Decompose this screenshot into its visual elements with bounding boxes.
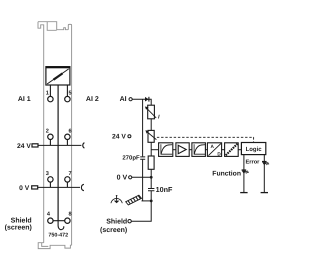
svg-text:24 V: 24 V [112, 134, 126, 141]
internal center wire [57, 85, 59, 221]
diode D1 triangle [145, 97, 149, 102]
svg-text:7: 7 [69, 171, 72, 177]
module foot profile [38, 243, 71, 249]
svg-text:0 V: 0 V [19, 185, 30, 192]
function display box U-LED [46, 67, 70, 85]
function LED [242, 169, 247, 171]
terminal 1 stem [49, 85, 51, 96]
internal bus wire upper [142, 99, 144, 156]
AI input wire [132, 99, 151, 105]
varistor arrow [147, 132, 156, 140]
24V row wire [38, 144, 82, 146]
terminal 7 stem [66, 182, 68, 187]
24V terminal circle right [128, 135, 131, 138]
module foot inner contour [42, 243, 49, 247]
24V plug connector [32, 144, 38, 147]
wire junction to filter chain [151, 149, 158, 151]
internal bus wire lower [142, 160, 144, 201]
terminal 3 circle [48, 177, 53, 182]
svg-text:A: A [211, 144, 215, 149]
varistor box 2 [148, 130, 154, 142]
terminal 8 circle [65, 218, 70, 223]
svg-text:4: 4 [47, 212, 51, 218]
wire box1 to box2 [150, 119, 152, 131]
svg-text:750-472: 750-472 [48, 232, 68, 238]
wire F2-AD [205, 149, 207, 151]
wire 10nF to shield node [150, 191, 152, 201]
svg-text:0 V: 0 V [117, 175, 128, 182]
diode D1 bar [148, 97, 150, 102]
0V terminal circle right [129, 176, 132, 179]
junction node shield [150, 200, 153, 203]
logic block U1 [241, 143, 265, 155]
wire F1-amp [173, 149, 176, 151]
amplifier block [176, 143, 189, 157]
0V wire [132, 176, 151, 178]
earth symbol [111, 198, 122, 203]
error LED line [263, 155, 265, 193]
svg-text:(screen): (screen) [100, 226, 127, 234]
current limiter box I [148, 105, 155, 119]
svg-text:Shield: Shield [11, 216, 32, 224]
terminal 6 circle [65, 134, 70, 139]
junction node 0V [150, 176, 153, 179]
shield node wire [142, 200, 152, 202]
current limiter arrow [147, 108, 157, 118]
svg-text:Logic: Logic [246, 146, 263, 153]
terminal 1 circle [48, 96, 53, 101]
terminal 5 stem [66, 85, 68, 96]
wire resistor to 0V node [150, 169, 152, 188]
display box thick top bar [46, 66, 71, 68]
svg-text:AI: AI [120, 96, 127, 103]
shield loop hook [58, 221, 64, 230]
terminal 2 circle [48, 134, 53, 139]
wire box2 to junction [150, 142, 152, 156]
svg-text:Function: Function [212, 170, 241, 177]
function LED line [243, 155, 245, 193]
capacitor 10nF plates [148, 189, 154, 191]
wire terminal 4 to 8 [53, 220, 65, 222]
function LED rail tick [240, 192, 247, 194]
svg-text:Shield: Shield [106, 218, 127, 226]
svg-text:(screen): (screen) [5, 224, 32, 232]
terminal 5 circle [65, 96, 70, 101]
module latch slot [47, 22, 57, 31]
0V row wire [38, 186, 80, 188]
resistor R1 [148, 156, 154, 169]
svg-text:1: 1 [46, 91, 49, 97]
module outline top latch bar and right edge [38, 22, 72, 246]
capacitor 270pF plates [140, 157, 145, 159]
svg-text:I: I [158, 115, 160, 121]
svg-text:D: D [217, 151, 221, 156]
dashed control line [157, 137, 254, 142]
svg-text:6: 6 [69, 129, 72, 135]
A/D converter block [207, 143, 221, 157]
24V cage clamp [83, 143, 85, 149]
svg-text:8: 8 [69, 212, 72, 218]
module outline left edge and DIN latch hook [38, 22, 44, 243]
svg-text:Error: Error [245, 160, 260, 166]
AI terminal circle [129, 98, 132, 101]
shield wire right [131, 201, 151, 221]
svg-text:3: 3 [46, 171, 49, 177]
wire amp-F2 [189, 149, 192, 151]
0V plug connector [32, 186, 38, 189]
error LED [262, 161, 267, 163]
svg-text:AI 1: AI 1 [18, 96, 31, 103]
wire iso-logic [238, 149, 241, 151]
terminal 4 circle [48, 218, 53, 223]
error LED rail tick [261, 192, 268, 194]
svg-text:2: 2 [46, 129, 49, 135]
svg-text:270pF: 270pF [122, 155, 140, 162]
filter block F2 [192, 143, 206, 157]
shield terminal circle right [128, 220, 131, 223]
display box diagonal stripe [47, 69, 69, 84]
svg-text:AI 2: AI 2 [86, 96, 99, 103]
0V cage clamp [81, 184, 83, 190]
terminal 6 stem [66, 140, 68, 146]
wire AD-iso [222, 149, 225, 151]
terminal 2 stem [49, 140, 51, 146]
svg-text:24 V: 24 V [17, 143, 31, 150]
terminal 3 stem [49, 182, 51, 187]
svg-text:10nF: 10nF [156, 185, 173, 194]
filter block F1 [159, 143, 173, 157]
galvanic isolation block [225, 143, 239, 157]
svg-text:5: 5 [69, 91, 72, 97]
shield clamp symbol [126, 195, 142, 205]
terminal 7 circle [65, 177, 70, 182]
